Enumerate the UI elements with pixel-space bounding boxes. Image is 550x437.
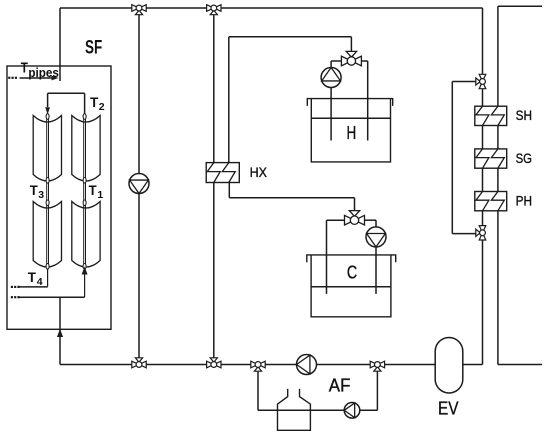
svg-text:2: 2 <box>99 101 105 113</box>
svg-text:HX: HX <box>250 164 268 180</box>
svg-text:T: T <box>90 94 99 110</box>
svg-text:C: C <box>347 263 357 283</box>
svg-text:T: T <box>28 269 37 285</box>
svg-text:1: 1 <box>97 189 103 201</box>
svg-text:AF: AF <box>329 376 351 396</box>
svg-text:PH: PH <box>516 193 532 208</box>
svg-text:3: 3 <box>38 189 44 201</box>
svg-text:T: T <box>89 182 97 198</box>
svg-text:T: T <box>30 182 38 198</box>
svg-text:pipes: pipes <box>28 66 59 80</box>
svg-text:4: 4 <box>37 276 43 288</box>
svg-text:SH: SH <box>516 108 532 123</box>
svg-text:EV: EV <box>438 399 459 419</box>
svg-text:H: H <box>347 123 357 143</box>
svg-text:SF: SF <box>85 38 102 59</box>
svg-text:SG: SG <box>516 151 532 166</box>
svg-text:T: T <box>21 61 28 77</box>
